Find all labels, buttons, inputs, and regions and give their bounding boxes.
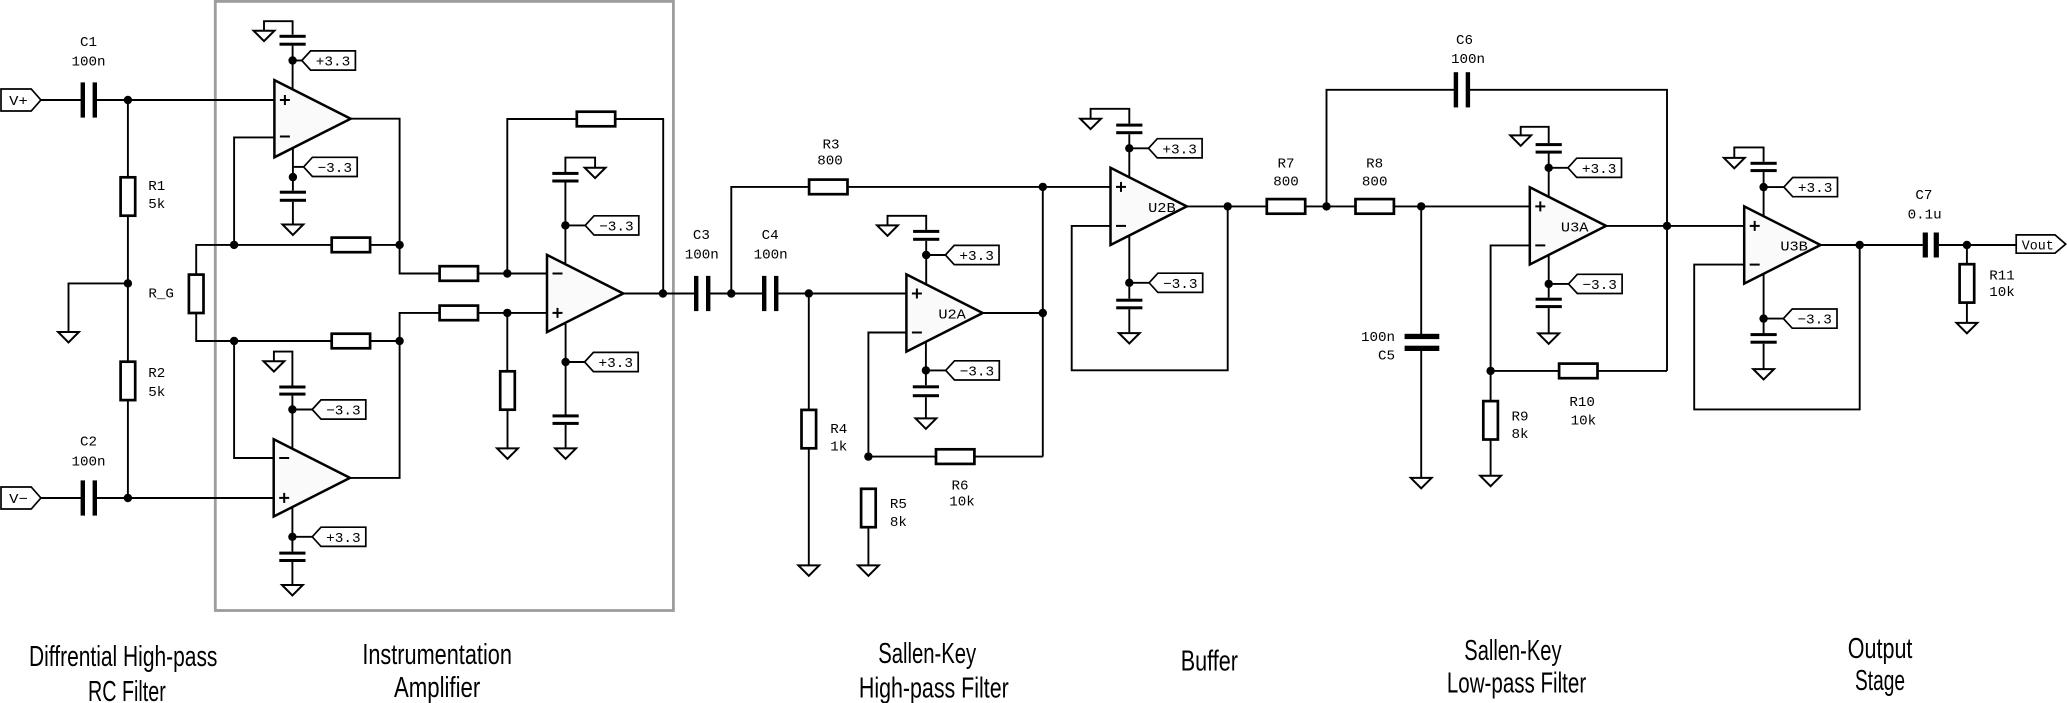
svg-text:Buffer: Buffer <box>1181 646 1238 678</box>
svg-text:10k: 10k <box>1571 413 1597 429</box>
svg-text:Stage: Stage <box>1855 665 1905 697</box>
svg-text:+3.3: +3.3 <box>1798 181 1833 197</box>
svg-text:R5: R5 <box>890 497 907 513</box>
svg-text:C5: C5 <box>1378 349 1395 365</box>
svg-text:V+: V+ <box>9 94 28 110</box>
svg-text:100n: 100n <box>71 55 105 71</box>
svg-text:800: 800 <box>1273 175 1299 191</box>
svg-text:C6: C6 <box>1456 33 1473 49</box>
svg-text:Sallen-Key: Sallen-Key <box>1464 635 1562 667</box>
svg-text:R_G: R_G <box>148 287 174 303</box>
svg-text:−3.3: −3.3 <box>960 364 995 380</box>
svg-text:Low-pass Filter: Low-pass Filter <box>1447 668 1586 700</box>
svg-text:100n: 100n <box>71 454 105 470</box>
svg-text:−3.3: −3.3 <box>326 404 361 420</box>
svg-text:R9: R9 <box>1512 409 1529 425</box>
svg-text:+3.3: +3.3 <box>1582 162 1617 178</box>
svg-text:Vout: Vout <box>2022 239 2054 255</box>
svg-text:+3.3: +3.3 <box>316 55 351 71</box>
svg-text:Sallen-Key: Sallen-Key <box>878 638 976 670</box>
svg-text:Output: Output <box>1848 633 1913 665</box>
svg-text:10k: 10k <box>949 495 975 511</box>
svg-text:−3.3: −3.3 <box>1797 313 1832 329</box>
svg-text:C7: C7 <box>1915 188 1932 204</box>
svg-text:800: 800 <box>1362 175 1388 191</box>
svg-text:100n: 100n <box>754 248 788 264</box>
svg-text:R8: R8 <box>1366 157 1383 173</box>
svg-text:+3.3: +3.3 <box>326 531 361 547</box>
svg-text:R10: R10 <box>1569 395 1595 411</box>
svg-text:0.1u: 0.1u <box>1908 208 1942 224</box>
svg-text:100n: 100n <box>1451 52 1485 68</box>
svg-text:C2: C2 <box>80 434 97 450</box>
svg-text:Diffrential High-pass: Diffrential High-pass <box>29 641 217 673</box>
svg-text:U2A: U2A <box>938 308 966 324</box>
svg-text:8k: 8k <box>890 515 907 531</box>
svg-text:−3.3: −3.3 <box>599 219 634 235</box>
svg-text:8k: 8k <box>1512 427 1529 443</box>
svg-text:Amplifier: Amplifier <box>394 672 480 703</box>
svg-text:U3A: U3A <box>1561 220 1589 236</box>
svg-text:R6: R6 <box>951 479 968 495</box>
svg-text:U3B: U3B <box>1780 240 1808 256</box>
svg-text:100n: 100n <box>1361 330 1395 346</box>
svg-text:R2: R2 <box>148 366 165 382</box>
svg-text:100n: 100n <box>685 248 719 264</box>
svg-text:C4: C4 <box>762 228 779 244</box>
svg-text:High-pass Filter: High-pass Filter <box>859 672 1009 703</box>
svg-text:U2B: U2B <box>1148 201 1176 217</box>
svg-text:+3.3: +3.3 <box>599 356 634 372</box>
svg-text:RC Filter: RC Filter <box>88 676 166 703</box>
svg-text:−3.3: −3.3 <box>1163 277 1198 293</box>
svg-text:800: 800 <box>817 153 843 169</box>
svg-text:V−: V− <box>9 492 28 508</box>
svg-text:1k: 1k <box>830 440 847 456</box>
svg-text:5k: 5k <box>148 385 165 401</box>
svg-text:R11: R11 <box>1989 269 2015 285</box>
svg-text:10k: 10k <box>1989 285 2015 301</box>
svg-text:R3: R3 <box>822 137 839 153</box>
svg-text:Instrumentation: Instrumentation <box>362 639 512 671</box>
svg-text:+3.3: +3.3 <box>959 249 994 265</box>
svg-text:R1: R1 <box>148 179 165 195</box>
svg-text:+3.3: +3.3 <box>1162 142 1197 158</box>
svg-text:−3.3: −3.3 <box>1582 278 1617 294</box>
svg-text:R7: R7 <box>1277 157 1294 173</box>
svg-text:−3.3: −3.3 <box>318 161 353 177</box>
svg-text:C1: C1 <box>80 35 97 51</box>
svg-text:C3: C3 <box>693 228 710 244</box>
svg-text:5k: 5k <box>148 197 165 213</box>
svg-text:R4: R4 <box>830 422 847 438</box>
